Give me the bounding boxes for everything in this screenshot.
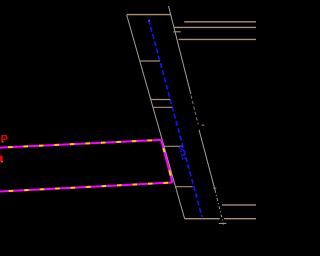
node red label clipped <box>0 156 3 162</box>
wire tan inner tick y146.3 <box>164 145 183 147</box>
wire transition foot tick <box>213 187 216 189</box>
svg-text:MP: MP <box>0 134 8 146</box>
node orange point marker <box>202 125 205 126</box>
wire tan inner tick y61 <box>140 60 160 62</box>
wire tan inner tick y186.7 <box>175 186 192 188</box>
wire magenta upper boundary <box>0 140 161 148</box>
wire tan leader y204.9 <box>222 204 256 206</box>
wire tan leader y27.4 <box>173 26 256 28</box>
wire tan short tick y31.8 <box>173 31 180 33</box>
wire left gray edge of corridor <box>127 15 185 219</box>
wire tan inner tick y99.5 <box>151 99 170 101</box>
wire top tan edge of corridor <box>127 14 171 16</box>
wire bottom end tick <box>219 222 227 224</box>
wire blue dashed centerline <box>149 20 202 217</box>
wire tan bottom leader y218.7 left part <box>185 218 220 220</box>
wire tan leader y39.4 <box>179 38 257 40</box>
wire right gray edge upper solid <box>169 6 191 94</box>
wire tan inner tick y107.3 <box>153 106 172 108</box>
wire tan leader y21.8 <box>184 21 256 23</box>
wire right gray edge lower solid <box>199 130 215 190</box>
wire magenta lower boundary <box>0 183 173 192</box>
node purple start marker <box>148 20 150 22</box>
wire magenta diagonal on edge <box>161 140 173 183</box>
wire right edge dash-dot continuation <box>215 190 224 225</box>
wire tan bottom leader y218.7 right part <box>224 218 256 220</box>
wire right gray edge hidden dashed section <box>191 96 198 125</box>
